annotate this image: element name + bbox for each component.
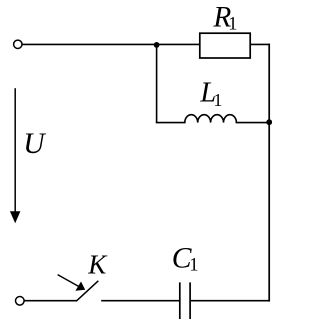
wire (top horizontal from terminal to resistor) (22, 43, 199, 45)
switch K blade (76, 281, 98, 301)
arrowhead (switch arrow) (75, 282, 85, 291)
svg-text:C1: C1 (172, 243, 199, 276)
wire (right vertical rail) (268, 44, 270, 302)
arrowhead (U arrow) (10, 211, 21, 223)
capacitor C1 plate right (189, 282, 191, 319)
node (junction dot top, wire to L1 branch) (154, 42, 160, 48)
svg-text:U: U (23, 128, 46, 160)
wire (bottom left horizontal to switch) (24, 300, 76, 302)
capacitor C1 plate left (179, 282, 181, 319)
svg-text:R1: R1 (212, 2, 237, 35)
inductor L1 (156, 115, 269, 123)
node (junction dot right rail / L1) (266, 119, 272, 125)
svg-text:K: K (87, 250, 108, 280)
wire (left branch vertical from top junction down to L1) (156, 45, 158, 123)
svg-text:L1: L1 (199, 78, 222, 111)
arrow (actuation arrow pointing to switch blade) (58, 275, 79, 287)
resistor R1 (200, 33, 250, 58)
wire (U source arrow line) (14, 88, 16, 214)
wire (capacitor right to right rail) (191, 300, 270, 302)
wire (resistor right to right rail) (250, 43, 270, 45)
terminal (bottom-left input) (15, 297, 24, 306)
terminal (top-left input) (14, 40, 22, 48)
wire (switch fixed contact to capacitor) (101, 300, 179, 302)
